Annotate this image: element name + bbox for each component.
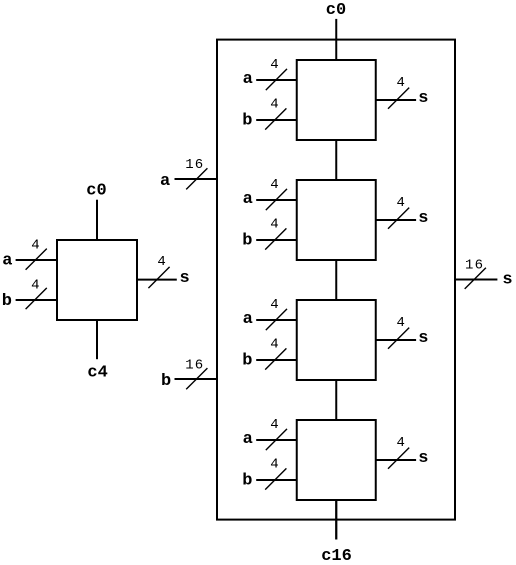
svg-text:s: s: [502, 271, 512, 290]
svg-text:4: 4: [270, 457, 278, 473]
svg-text:b: b: [2, 292, 12, 311]
svg-text:16: 16: [185, 358, 203, 374]
svg-text:a: a: [243, 310, 253, 329]
svg-text:16: 16: [465, 258, 483, 274]
svg-text:a: a: [160, 172, 170, 191]
svg-text:s: s: [180, 269, 190, 288]
svg-text:4: 4: [270, 217, 278, 233]
svg-text:a: a: [2, 252, 12, 271]
svg-text:c0: c0: [326, 1, 346, 20]
svg-text:b: b: [242, 352, 252, 371]
svg-text:4: 4: [396, 195, 404, 211]
svg-text:a: a: [243, 190, 253, 209]
svg-text:4: 4: [396, 435, 404, 451]
svg-text:c16: c16: [321, 547, 352, 565]
svg-text:16: 16: [185, 157, 203, 173]
svg-text:4: 4: [270, 337, 278, 353]
svg-text:b: b: [161, 372, 171, 391]
svg-text:s: s: [418, 209, 428, 228]
svg-text:c4: c4: [87, 364, 107, 383]
svg-text:s: s: [418, 329, 428, 348]
svg-text:b: b: [242, 472, 252, 491]
svg-text:4: 4: [31, 278, 39, 294]
svg-text:4: 4: [157, 254, 165, 270]
svg-text:b: b: [242, 232, 252, 251]
svg-text:a: a: [243, 430, 253, 449]
svg-text:4: 4: [31, 238, 39, 254]
svg-text:4: 4: [270, 177, 278, 193]
svg-text:4: 4: [270, 417, 278, 433]
svg-text:c0: c0: [86, 182, 106, 201]
svg-text:4: 4: [396, 315, 404, 331]
svg-text:4: 4: [396, 75, 404, 91]
svg-text:a: a: [243, 70, 253, 89]
svg-text:s: s: [418, 89, 428, 108]
svg-text:4: 4: [270, 297, 278, 313]
svg-text:4: 4: [270, 57, 278, 73]
svg-text:b: b: [242, 112, 252, 131]
svg-text:s: s: [418, 449, 428, 468]
svg-text:4: 4: [270, 97, 278, 113]
